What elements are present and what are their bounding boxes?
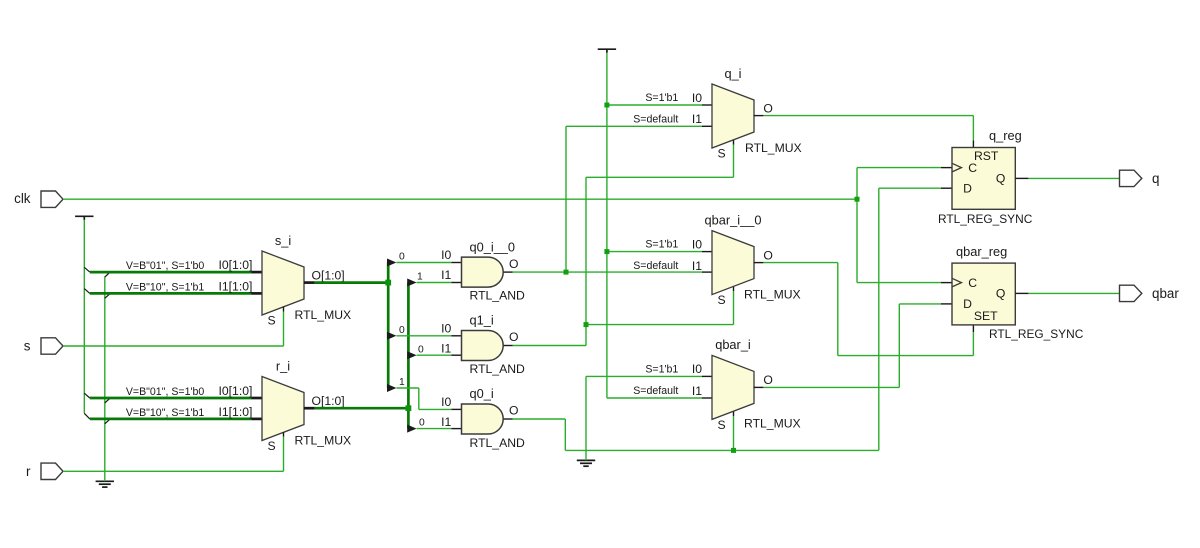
svg-text:RTL_REG_SYNC: RTL_REG_SYNC: [938, 212, 1033, 226]
svg-text:V=B"10", S=1'b1: V=B"10", S=1'b1: [126, 282, 205, 294]
ground symbol GND1: [96, 480, 114, 482]
junction vcc2 qbar_i__0 I0: [604, 249, 609, 254]
mux s_i RTL_MUX: [262, 251, 304, 315]
wire q0_i O net: [513, 418, 566, 420]
pin stub s_i S: [283, 307, 285, 312]
svg-text:RST: RST: [974, 149, 999, 163]
svg-text:O: O: [763, 373, 772, 387]
svg-text:I0: I0: [692, 362, 702, 376]
svg-text:I1: I1: [441, 342, 451, 356]
output port qbar: [1120, 285, 1142, 301]
svg-text:qbar: qbar: [1152, 286, 1179, 301]
svg-text:RTL_MUX: RTL_MUX: [744, 417, 801, 431]
svg-text:q_i: q_i: [724, 66, 741, 81]
pin stub qbar_reg Q: [1015, 292, 1028, 294]
wire qbar_i O to qbar_reg D: [763, 386, 899, 388]
bus constant B01 to r_i I0: [90, 397, 252, 400]
svg-text:q_reg: q_reg: [989, 128, 1022, 143]
svg-text:0: 0: [419, 418, 425, 429]
svg-text:RTL_MUX: RTL_MUX: [295, 308, 352, 322]
svg-text:I0[1:0]: I0[1:0]: [219, 384, 253, 398]
svg-text:S: S: [718, 293, 726, 307]
junction clk net: [855, 197, 860, 202]
svg-text:S=default: S=default: [633, 113, 678, 125]
svg-text:O: O: [509, 330, 518, 344]
tap busA bit1 to q0_i I0: [387, 384, 396, 392]
wire qbar_i__0 O to qbar_reg SET: [763, 262, 837, 264]
svg-text:D: D: [963, 297, 972, 311]
svg-text:q1_i: q1_i: [470, 313, 494, 328]
svg-text:q: q: [1152, 171, 1159, 186]
svg-text:1: 1: [399, 377, 405, 388]
wire q0_i__0 O net: [513, 271, 703, 273]
svg-text:I1: I1: [441, 268, 451, 282]
bus s_i O[1:0] horizontal: [315, 281, 389, 284]
svg-text:s_i: s_i: [275, 233, 291, 248]
wire q net: [1028, 177, 1119, 179]
svg-text:s: s: [24, 339, 31, 354]
svg-text:S=1'b1: S=1'b1: [645, 239, 678, 251]
wire q1_i O net: [513, 345, 587, 347]
svg-text:RTL_MUX: RTL_MUX: [745, 141, 802, 155]
pin stub q0_i__0 O: [504, 271, 513, 273]
svg-text:1: 1: [417, 272, 423, 283]
svg-text:0: 0: [399, 325, 405, 336]
bus junction A: [385, 280, 391, 286]
pin stub qbar_i__0 O: [754, 262, 764, 264]
wire r net: [63, 470, 284, 472]
svg-text:r_i: r_i: [276, 358, 290, 373]
svg-text:I1[1:0]: I1[1:0]: [219, 279, 253, 293]
svg-text:I0: I0: [441, 395, 451, 409]
svg-text:O: O: [509, 404, 518, 418]
svg-text:O: O: [763, 248, 772, 262]
tap busB bit1 to q0_i__0 I1: [407, 279, 416, 287]
pin stub q0_i O: [504, 418, 513, 420]
register q_reg RTL_REG_SYNC: [952, 148, 1015, 210]
junction q1_i O net: [584, 322, 589, 327]
wire vcc1 vertical: [83, 220, 85, 413]
svg-text:I1: I1: [692, 384, 702, 398]
svg-text:I0: I0: [692, 237, 702, 251]
svg-text:0: 0: [399, 252, 405, 263]
svg-text:V=B"10", S=1'b1: V=B"10", S=1'b1: [126, 407, 205, 419]
power symbol VCC2: [598, 48, 616, 50]
svg-text:V=B"01", S=1'b0: V=B"01", S=1'b0: [126, 386, 205, 398]
wire gnd2 net: [585, 376, 587, 460]
pin stub qbar_i O: [754, 386, 764, 388]
pin stub s_i O: [304, 281, 315, 284]
svg-text:D: D: [963, 181, 972, 195]
and gate q0_i__0 RTL_AND: [462, 257, 504, 287]
ground symbol GND2: [577, 459, 595, 461]
tap busB bit0 to q1_i I1: [407, 351, 416, 359]
bus ripper hooks s_i I0: [84, 267, 90, 272]
svg-text:qbar_reg: qbar_reg: [956, 244, 1007, 259]
svg-text:Q: Q: [996, 171, 1005, 185]
svg-text:V=B"01", S=1'b0: V=B"01", S=1'b0: [126, 260, 205, 272]
bus B vertical: [407, 283, 410, 429]
junction vcc2 q_i I0: [604, 103, 609, 108]
bus ripper hooks r_i I1: [84, 413, 90, 419]
pin stub q1_i O: [504, 345, 513, 347]
pin stub q_i O: [754, 115, 764, 117]
bus r_i O[1:0] horizontal: [315, 407, 409, 410]
svg-text:S: S: [718, 147, 726, 161]
svg-text:Q: Q: [996, 286, 1005, 300]
pin stub r_i S: [283, 432, 285, 436]
bus ripper hooks s_i I1: [84, 289, 90, 294]
mux q_i RTL_MUX: [712, 84, 754, 148]
svg-text:I0[1:0]: I0[1:0]: [219, 258, 253, 272]
svg-text:I1: I1: [692, 259, 702, 273]
wire gnd1 vertical: [104, 277, 106, 482]
wire qbar net: [1028, 292, 1119, 294]
svg-text:SET: SET: [974, 309, 998, 323]
junction q0_i__0 O net: [564, 270, 569, 275]
svg-text:S=1'b1: S=1'b1: [645, 363, 678, 375]
svg-text:S=1'b1: S=1'b1: [645, 92, 678, 104]
svg-text:I1: I1: [692, 112, 702, 126]
junction q0_i O net: [731, 448, 736, 453]
svg-text:O[1:0]: O[1:0]: [312, 268, 345, 282]
wire q_i O to q_reg RST: [763, 115, 973, 117]
output port q: [1120, 170, 1142, 186]
svg-text:clk: clk: [14, 191, 31, 206]
svg-text:O: O: [763, 101, 772, 115]
svg-text:S=default: S=default: [633, 385, 678, 397]
mux qbar_i__0 RTL_MUX: [712, 231, 754, 295]
svg-text:qbar_i__0: qbar_i__0: [705, 212, 762, 227]
clock chevron q_reg C: [952, 163, 962, 172]
bus constant B10 to r_i I1: [90, 418, 252, 421]
wire s net: [63, 345, 284, 347]
svg-text:RTL_AND: RTL_AND: [470, 362, 526, 376]
svg-text:C: C: [968, 276, 977, 290]
svg-text:I0: I0: [692, 91, 702, 105]
bus ripper hooks r_i I0: [84, 393, 90, 398]
svg-text:q0_i: q0_i: [470, 386, 494, 401]
svg-text:RTL_AND: RTL_AND: [470, 436, 526, 450]
mux qbar_i RTL_MUX: [712, 355, 754, 419]
power symbol VCC1: [75, 215, 93, 217]
svg-text:RTL_MUX: RTL_MUX: [744, 287, 801, 301]
mux r_i RTL_MUX: [262, 377, 304, 441]
bus constant B10 to s_i I1: [90, 292, 252, 295]
pin stub q_reg Q: [1015, 177, 1028, 179]
input port s: [41, 338, 63, 354]
svg-text:0: 0: [418, 344, 424, 355]
input port r: [41, 463, 63, 479]
svg-text:q0_i__0: q0_i__0: [470, 239, 516, 254]
svg-text:qbar_i: qbar_i: [715, 337, 751, 352]
svg-text:S: S: [268, 314, 276, 328]
svg-text:I0: I0: [441, 248, 451, 262]
clock chevron qbar_reg C: [952, 278, 962, 287]
wire vcc2 net: [606, 53, 608, 398]
svg-text:RTL_REG_SYNC: RTL_REG_SYNC: [989, 327, 1084, 341]
pin stub r_i O: [304, 407, 315, 410]
wire clk net: [63, 198, 857, 200]
and gate q1_i RTL_AND: [462, 331, 504, 361]
svg-text:r: r: [26, 464, 31, 479]
svg-text:I1[1:0]: I1[1:0]: [219, 405, 253, 419]
svg-text:RTL_MUX: RTL_MUX: [295, 434, 352, 448]
bus junction B: [406, 405, 412, 411]
svg-text:O: O: [509, 257, 518, 271]
tap busA bit0 to q0_i__0 I0: [387, 259, 396, 267]
svg-text:S: S: [718, 418, 726, 432]
svg-text:I0: I0: [441, 322, 451, 336]
bus A vertical: [387, 263, 390, 389]
input port clk: [41, 191, 63, 207]
tap busA bit0 to q1_i I0: [387, 332, 396, 340]
register qbar_reg RTL_REG_SYNC: [952, 263, 1015, 325]
svg-text:O[1:0]: O[1:0]: [312, 394, 345, 408]
svg-text:S: S: [268, 439, 276, 453]
svg-text:RTL_AND: RTL_AND: [470, 289, 526, 303]
tap busB bit0 to q0_i I1: [407, 425, 416, 433]
svg-text:C: C: [968, 161, 977, 175]
bus constant B01 to s_i I0: [90, 271, 252, 274]
svg-text:S=default: S=default: [633, 260, 678, 272]
and gate q0_i RTL_AND: [462, 404, 504, 434]
svg-text:I1: I1: [441, 415, 451, 429]
